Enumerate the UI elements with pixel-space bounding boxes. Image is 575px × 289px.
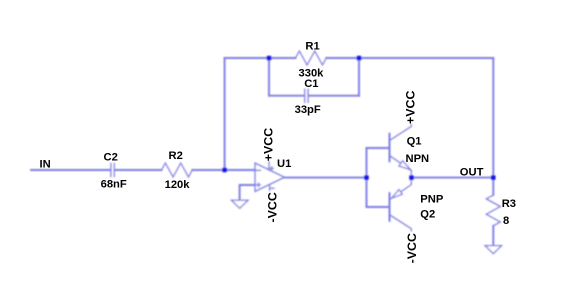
svg-text:C2: C2 bbox=[104, 152, 118, 164]
wire base bus to Q2 base bbox=[367, 206, 389, 208]
junction R1 right bbox=[357, 56, 361, 60]
wire base bus vertical bbox=[366, 148, 368, 207]
transistor Q2 emitter arrowhead bbox=[392, 190, 403, 199]
transistor Q2 emitter bbox=[390, 178, 412, 200]
wire IN to C2 bbox=[31, 169, 110, 171]
svg-text:120k: 120k bbox=[165, 179, 191, 191]
transistor Q2 collector bbox=[390, 215, 412, 231]
transistor Q2 base bar bbox=[389, 193, 391, 221]
junction OUT node bbox=[491, 175, 495, 179]
ground at U1 non-inverting input bbox=[231, 200, 248, 208]
op-amp U1 inverting input marker bbox=[257, 169, 261, 171]
resistor R1 bbox=[296, 51, 327, 65]
op-amp U1 bbox=[255, 163, 285, 192]
op-amp U1 non-inverting input marker bbox=[257, 183, 261, 187]
capacitor C1 bbox=[305, 89, 308, 103]
wire C1 branch left horizontal bbox=[269, 95, 304, 97]
svg-text:-VCC: -VCC bbox=[405, 233, 419, 263]
svg-text:8: 8 bbox=[503, 215, 509, 227]
wire feedback left vertical bbox=[224, 58, 226, 170]
svg-text:68nF: 68nF bbox=[101, 179, 127, 191]
transistor Q1 collector bbox=[390, 125, 412, 141]
wire C1 branch left vertical bbox=[268, 58, 270, 96]
svg-text:PNP: PNP bbox=[420, 194, 444, 206]
resistor R3 bbox=[486, 195, 500, 226]
svg-text:Q1: Q1 bbox=[407, 135, 422, 147]
transistor Q1 emitter bbox=[390, 156, 412, 178]
junction feedback / R2 bbox=[222, 168, 226, 172]
wire C2 to R2 bbox=[115, 169, 162, 171]
op-amp U1 positive supply pin bbox=[269, 162, 273, 171]
wire top feedback right segment bbox=[326, 57, 493, 59]
svg-text:U1: U1 bbox=[277, 158, 291, 170]
svg-text:IN: IN bbox=[40, 158, 51, 170]
svg-text:C1: C1 bbox=[304, 78, 318, 90]
svg-text:33pF: 33pF bbox=[295, 104, 321, 116]
wire C1 branch right vertical bbox=[358, 58, 360, 96]
svg-text:OUT: OUT bbox=[460, 166, 484, 178]
wire U1 non-inverting input to ground bbox=[240, 185, 255, 200]
svg-text:+VCC: +VCC bbox=[404, 91, 418, 124]
svg-text:R1: R1 bbox=[305, 41, 319, 53]
junction base bus bbox=[364, 175, 368, 179]
svg-text:R3: R3 bbox=[502, 198, 516, 210]
wire R2 to U1 inverting input bbox=[192, 169, 255, 171]
svg-text:Q2: Q2 bbox=[420, 208, 435, 220]
junction emitters bbox=[409, 175, 413, 179]
wire OUT node to R3 bbox=[492, 178, 494, 195]
op-amp U1 negative supply pin bbox=[270, 185, 275, 191]
capacitor C2 bbox=[111, 163, 114, 177]
ground at R3 bbox=[485, 246, 502, 254]
wire base bus to Q1 base bbox=[367, 147, 389, 149]
wire R3 to ground bbox=[492, 226, 494, 245]
junction R1 left bbox=[267, 56, 271, 60]
resistor R2 bbox=[162, 163, 193, 177]
svg-text:NPN: NPN bbox=[406, 153, 430, 165]
wire top feedback left segment bbox=[225, 57, 296, 59]
wire U1 output to base bus bbox=[285, 177, 367, 179]
wire feedback right vertical bbox=[492, 58, 494, 178]
wire C1 branch right horizontal bbox=[309, 95, 359, 97]
transistor Q1 base bar bbox=[389, 134, 391, 162]
svg-text:-VCC: -VCC bbox=[265, 192, 279, 222]
svg-text:R2: R2 bbox=[169, 150, 183, 162]
svg-text:+VCC: +VCC bbox=[262, 128, 276, 161]
wire emitters to OUT node bbox=[412, 177, 494, 179]
transistor Q1 emitter arrowhead bbox=[399, 161, 410, 170]
